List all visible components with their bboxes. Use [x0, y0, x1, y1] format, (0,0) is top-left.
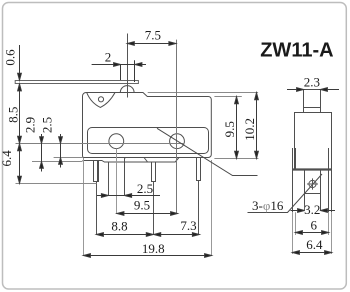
terminal center ext lines — [96, 182, 98, 235]
dim 0.6 vertical line + arrow — [19, 45, 21, 80]
bottom ext left y=161.5 — [32, 161, 83, 163]
dim 6.4 left line — [19, 144, 21, 184]
left rail — [292, 148, 294, 212]
svg-text:3.2: 3.2 — [304, 202, 320, 217]
dim 2 (plunger) — [92, 64, 135, 66]
svg-text:8.5: 8.5 — [5, 107, 20, 123]
mounting hole left — [109, 134, 124, 149]
svg-text:2.3: 2.3 — [304, 75, 320, 90]
bottom step contour — [83, 158, 180, 163]
19.8 left ext line — [83, 158, 85, 256]
side body bottom thick line — [293, 168, 332, 170]
terminal left — [94, 161, 99, 182]
svg-text:ZW11-A: ZW11-A — [260, 39, 333, 61]
svg-text:8.8: 8.8 — [111, 218, 127, 233]
side view button — [304, 90, 321, 113]
svg-text:10.2: 10.2 — [242, 118, 257, 141]
dim 7.5 — [128, 43, 176, 45]
dim 3.2 — [291, 210, 305, 212]
svg-text:19.8: 19.8 — [142, 241, 165, 256]
inner corner line at x=124.5 — [125, 158, 130, 197]
top edge ext line B (ext for 9.5) — [214, 96, 241, 98]
dim 10.2 — [256, 93, 258, 159]
lever arm — [15, 81, 138, 84]
right side bottom shared ext y=158.5 — [214, 158, 258, 160]
step ext line x=108.5 — [108, 162, 110, 196]
svg-text:6.4: 6.4 — [306, 237, 323, 252]
dim 2.3 — [287, 89, 304, 91]
mounting ear notch — [87, 93, 115, 108]
inner channel — [304, 171, 306, 211]
dim 8.8 — [97, 234, 154, 236]
svg-text:9.5: 9.5 — [222, 121, 237, 137]
19.8 right ext line — [211, 160, 213, 256]
leader from right hole to empty callout — [157, 128, 258, 175]
svg-text:2: 2 — [105, 50, 112, 65]
bottom step small chamfer — [144, 158, 148, 163]
plunger center line — [127, 34, 129, 98]
terminal right — [197, 158, 201, 181]
right rail — [328, 148, 330, 212]
svg-text:6.4: 6.4 — [0, 150, 14, 167]
dim 8.5 line — [19, 84, 21, 143]
bottom ext left y=157.5 — [54, 157, 83, 159]
dim 19.8 — [84, 255, 212, 257]
dim 9.5 right — [236, 97, 238, 159]
dim 6 — [296, 232, 329, 234]
plunger button arc — [120, 86, 134, 93]
dim 6.4 — [293, 252, 332, 254]
dim 9.5 bottom — [117, 213, 178, 215]
inner rounded rectangle — [88, 128, 209, 154]
callout 3-phi16 underline and leader to side hole — [248, 174, 323, 213]
side view body — [295, 113, 332, 170]
6.4 bottom ext line — [16, 183, 97, 185]
side view bottom ext lines — [293, 212, 332, 254]
side mounting hole with crosshair — [307, 178, 318, 189]
svg-text:0.6: 0.6 — [3, 49, 18, 66]
svg-text:2.5: 2.5 — [137, 181, 153, 196]
button collar line — [304, 107, 321, 109]
top step line A (ext for 10.2) — [148, 92, 258, 94]
svg-text:3-φ16: 3-φ16 — [252, 198, 284, 213]
svg-text:2.5: 2.5 — [40, 117, 55, 133]
svg-text:7.5: 7.5 — [145, 28, 161, 43]
left circle ext line down — [116, 149, 118, 214]
svg-text:7.3: 7.3 — [180, 218, 196, 233]
right circle ext line (7.5 to 9.5 dims) — [176, 40, 178, 214]
svg-text:2.9: 2.9 — [23, 117, 38, 133]
mounting hole right — [170, 134, 185, 149]
hole center line horizontal — [16, 143, 185, 145]
dim 2.5 bottom — [97, 195, 160, 197]
svg-text:9.5: 9.5 — [134, 198, 150, 213]
terminal middle — [152, 162, 156, 182]
terminal left inner line — [97, 161, 99, 182]
svg-text:6: 6 — [310, 218, 317, 233]
dim 2.9 arrows — [41, 134, 43, 172]
dim 2.5 left arrows — [60, 134, 62, 168]
ear hole — [98, 97, 103, 102]
dim 7.3 — [154, 234, 200, 236]
switch body outline (front view) — [82, 92, 211, 157]
